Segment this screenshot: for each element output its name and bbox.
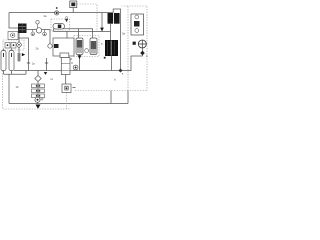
wire trap T1 feed: [78, 29, 80, 38]
wire upper pipe from evaporator: [54, 28, 94, 30]
trap T1: [76, 38, 83, 55]
wire top-left drop: [9, 13, 18, 29]
bubbler b2: [31, 30, 35, 36]
wire chain spine: [37, 82, 39, 98]
wire trap T2 feed: [92, 29, 94, 38]
valve P1 on top line: [55, 7, 59, 15]
wire bubbler riser: [18, 38, 29, 71]
saturator S1 dark box: [18, 24, 27, 34]
pump P2 box: [62, 84, 76, 93]
wire vent U left: [110, 91, 112, 104]
diamond junction below blower: [140, 51, 145, 56]
cold trap CT2: [9, 51, 14, 71]
wire gas line left: [27, 29, 51, 31]
wire bypass over vaporizer: [113, 9, 120, 71]
wire lower pipe: [54, 29, 111, 32]
flowmeter circle C1: [36, 28, 41, 33]
wire riser from top line with arrow: [101, 13, 103, 32]
arrow drain down: [36, 105, 41, 109]
cold trap CT1: [1, 51, 6, 71]
svg-text:2b: 2b: [36, 46, 39, 50]
wire cold trap CT2 stub top: [11, 49, 13, 51]
pump box in thermostat: [131, 14, 144, 35]
wire trap T1 outlet: [79, 55, 81, 71]
svg-text:1b: 1b: [16, 85, 19, 89]
gauge stem circle: [36, 21, 39, 29]
mass flow controller sq1: [5, 43, 10, 49]
wire control signal dashed: [77, 4, 97, 31]
cryostat left dashed edge: [3, 55, 71, 109]
small circle between traps: [85, 49, 89, 53]
condenser row 2: [32, 89, 45, 93]
motor circle M: [71, 62, 78, 70]
wire X-junction to recycle riser: [121, 48, 143, 70]
wire bottom main line: [9, 103, 128, 105]
relief valve triangle: [65, 17, 68, 23]
labels: [16, 14, 149, 89]
wire chain to bottom line: [37, 102, 39, 103]
vessel neck: [60, 53, 69, 58]
wire vessel riser: [66, 32, 68, 39]
diamond valve chain top: [35, 76, 41, 82]
wire dashed heated line: [75, 90, 147, 92]
thermostat enclosure right dashed box: [122, 6, 148, 91]
bath box with bubbler: [8, 32, 18, 40]
valve diamond in manifold: [16, 42, 22, 49]
svg-text:2a: 2a: [44, 14, 47, 18]
arrow onto gas line: [100, 28, 104, 32]
tick on stub: [45, 62, 48, 64]
wire chain feed: [37, 71, 39, 76]
X junction: [119, 69, 123, 73]
tick on riser: [27, 62, 30, 64]
trap T2: [90, 38, 97, 55]
wire vent U right: [127, 91, 129, 104]
tick below furnace: [104, 57, 106, 59]
wire ladder spine: [18, 53, 20, 63]
dashed box evaporator: [51, 19, 70, 31]
wire top main line: [9, 12, 113, 14]
evaporator V1 oval: [53, 24, 65, 30]
svg-text:3a: 3a: [122, 31, 125, 35]
condenser row 1: [32, 84, 45, 88]
wire left downcomer: [8, 74, 10, 103]
blower circle-cross: [133, 40, 147, 48]
level gauge ladder: [17, 54, 20, 60]
wire vaporizer outlet to furnace: [110, 24, 112, 40]
condenser row 3: [32, 94, 45, 98]
wire stub with tick: [46, 58, 48, 71]
svg-text:4: 4: [146, 54, 148, 58]
wire mid horizontal line: [14, 70, 121, 72]
svg-text:a: a: [122, 72, 124, 75]
svg-text:M: M: [70, 57, 72, 61]
separator column: [61, 58, 70, 75]
collector circle: [35, 97, 43, 102]
wire pump drain dashed: [66, 93, 68, 110]
controller box: [70, 1, 77, 13]
bubbler b3: [43, 30, 47, 36]
wire furnace outlet down: [111, 56, 113, 71]
wire column bottom drop: [65, 75, 67, 85]
wire cold trap CT1 stub top: [3, 49, 5, 51]
dashed box adsorber traps: [74, 36, 99, 57]
dashed box gas manifold: [3, 40, 24, 50]
wire drop to vessel circle: [49, 30, 51, 44]
svg-text:1a: 1a: [32, 61, 35, 65]
mass flow controller sq2: [11, 43, 16, 49]
arrow below T1: [78, 55, 82, 59]
vaporizer dark block: [108, 13, 120, 24]
svg-text:b: b: [114, 77, 116, 81]
wire cold trap bottoms manifold: [4, 71, 27, 75]
furnace dark block: [105, 40, 118, 56]
vessel B1: [48, 38, 74, 56]
svg-text:1c: 1c: [50, 77, 53, 81]
arrow on mid line: [44, 72, 47, 75]
wire manifold riser: [18, 33, 20, 53]
arrow gas inlet: [22, 53, 25, 56]
svg-text:a: a: [101, 43, 103, 46]
